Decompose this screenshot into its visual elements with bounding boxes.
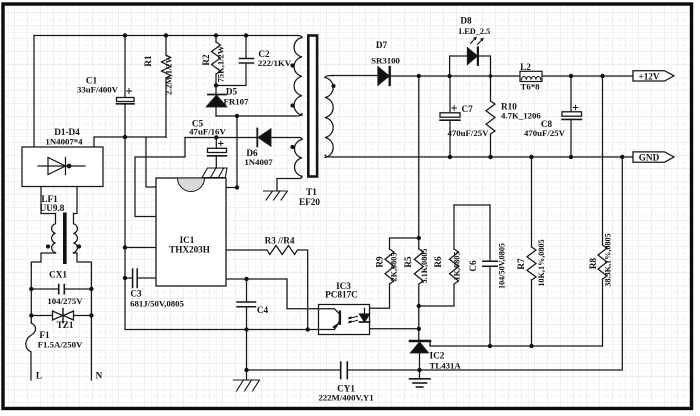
node IC1 / C4 (244, 277, 248, 281)
svg-text:470uF/25V: 470uF/25V (524, 128, 566, 138)
svg-text:38.3K,1%,0805: 38.3K,1%,0805 (604, 233, 613, 286)
svg-text:4.7K_1206: 4.7K_1206 (501, 111, 541, 121)
common-mode choke LF1 (31, 213, 91, 266)
wire bottom ground rail through CY1 to GND rail (247, 157, 623, 370)
svg-text:R5: R5 (403, 256, 413, 268)
resistor R9 (385, 249, 394, 284)
node R2/C2/D5 (214, 83, 218, 87)
svg-text:R8: R8 (588, 257, 598, 269)
diode D5 (207, 95, 227, 107)
wire startup feed to IC1 left pin (146, 137, 156, 187)
wire D6 anode to aux winding (271, 137, 299, 139)
node CX1 ends (29, 287, 33, 291)
svg-text:10K,1%,0805: 10K,1%,0805 (537, 239, 546, 286)
node bus / IC1 pins (123, 245, 127, 249)
fuse F1 (26, 316, 36, 381)
node sense divider top (417, 236, 421, 240)
capacitor C3 (133, 269, 138, 288)
wire C2 stems and link to R2 (216, 36, 246, 86)
svg-text:R1: R1 (143, 55, 153, 67)
wire +12V sense drop (418, 76, 420, 238)
wire top DC rail (34, 35, 298, 37)
transformer T1 EF20 (290, 36, 335, 177)
wire LED D8 branch risers (450, 56, 491, 76)
svg-text:F1: F1 (39, 330, 50, 340)
svg-text:F1.5A/250V: F1.5A/250V (38, 340, 83, 350)
wire C4 stems and primary ground stub (246, 279, 248, 380)
wire IC1 to C4 node and opto collector (226, 279, 319, 309)
wire C1 stem bottom / main bus to optocoupler emitter (125, 104, 319, 330)
svg-text:T1: T1 (306, 187, 317, 197)
earth ground for IC2 (410, 379, 431, 387)
resistor R3//R4 (267, 246, 297, 255)
svg-text:470uF/25V: 470uF/25V (447, 128, 489, 138)
svg-text:LED_2.5: LED_2.5 (459, 27, 491, 36)
svg-text:1N4007*4: 1N4007*4 (45, 137, 83, 147)
svg-text:R7: R7 (516, 258, 526, 270)
wire GND rail (333, 156, 633, 158)
svg-text:FR107: FR107 (224, 97, 250, 107)
diode D6 (257, 129, 271, 147)
wire R6 stems and link (419, 205, 454, 306)
wire R5 stems to TL431 cathode (418, 238, 420, 341)
capacitor C2 (240, 59, 254, 64)
wire secondary top to D7 (332, 75, 378, 77)
X capacitor CX1 (31, 265, 91, 316)
inductor L2 (520, 71, 542, 81)
chassis ground for C5 (202, 168, 227, 178)
svg-text:D1-D4: D1-D4 (54, 127, 80, 137)
wire TL431 anode to ground rail (419, 353, 421, 379)
wire R7 stems (531, 157, 533, 346)
wire R1 stems (165, 36, 167, 138)
svg-text:222/1KV: 222/1KV (258, 58, 292, 68)
wire bus to IC1 pin (125, 247, 156, 249)
svg-text:5.1K,0805: 5.1K,0805 (420, 248, 429, 283)
capacitor C7 (440, 106, 460, 121)
wire R6/C6 top link (454, 204, 490, 206)
node top rail junctions (123, 33, 127, 37)
resistor R6 (450, 249, 459, 284)
svg-text:PC817C: PC817C (325, 290, 358, 300)
wire +12V rail D7 to L2 and L2 to +12V flag (391, 75, 634, 77)
wire R3//R4 run to emitter line (226, 250, 308, 330)
wire R8 stems from +12V (602, 76, 604, 346)
svg-text:D8: D8 (460, 16, 472, 26)
bridge rectifier D1-D4 (22, 147, 103, 213)
wire R2 stems (215, 36, 217, 86)
node IC1 right pin to clamp (235, 185, 239, 189)
resistor R5 (414, 249, 423, 284)
svg-text:47uF/16V: 47uF/16V (189, 127, 226, 137)
node C5 tap (214, 135, 218, 139)
svg-text:TL431A: TL431A (430, 361, 462, 371)
wire C3 leads (125, 277, 156, 279)
node bridge output / C1 (123, 135, 127, 139)
wire D6 cathode line (185, 137, 257, 139)
svg-text:1K,0805: 1K,0805 (453, 252, 462, 281)
svg-text:222M/400V,Y1: 222M/400V,Y1 (318, 393, 373, 403)
svg-text:C7: C7 (462, 104, 474, 114)
wire D5 anode to primary bottom (216, 115, 294, 117)
svg-text:UU9.8: UU9.8 (40, 203, 65, 213)
capacitor C6 (483, 261, 498, 266)
capacitor C8 (562, 105, 582, 119)
node TL431 cathode / opto (417, 327, 421, 331)
chassis ground for C4 (234, 380, 260, 391)
node TL431 anode rail (417, 368, 421, 372)
node GND rail junctions (448, 155, 452, 159)
node R5/R6 bottom (417, 304, 421, 308)
IC U1 IC1 THX203H (156, 178, 226, 286)
svg-text:N: N (96, 371, 103, 381)
svg-text:C6: C6 (468, 260, 478, 272)
node C4 / emitter line (244, 327, 248, 331)
diode D7 (378, 67, 390, 85)
node TZ1 ends (29, 313, 33, 317)
svg-text:SR3100: SR3100 (371, 56, 400, 66)
resistor R1 (162, 55, 171, 78)
svg-text:C3: C3 (130, 289, 142, 299)
wire clamp node down to IC1 right pin (226, 116, 237, 188)
svg-text:D5: D5 (226, 87, 238, 97)
capacitor C1 (117, 89, 135, 104)
terminal +12V flag (633, 71, 674, 81)
wire C5 stems (215, 138, 217, 169)
node clamp / primary bottom (235, 114, 239, 118)
svg-text:EF20: EF20 (299, 197, 320, 207)
svg-text:+12V: +12V (638, 71, 659, 81)
svg-text:GND: GND (639, 153, 660, 163)
svg-text:L: L (36, 371, 42, 381)
svg-text:1N4007: 1N4007 (244, 157, 273, 167)
svg-text:D7: D7 (376, 40, 388, 50)
wire R10 stems (490, 76, 492, 157)
svg-text:C4: C4 (257, 305, 269, 315)
wire sense node to R9 and R9 to opto anode (365, 238, 419, 308)
svg-text:75K,1/2W: 75K,1/2W (216, 45, 226, 82)
wire C7 stems (449, 76, 451, 157)
wire D5 stems (215, 86, 217, 117)
wire C1 stem top (124, 36, 126, 98)
svg-text:R9: R9 (375, 256, 385, 268)
wire TL431 ref line (430, 341, 603, 346)
chassis ground for aux winding (264, 191, 288, 200)
Y capacitor CY1 (341, 362, 348, 379)
terminal GND flag (633, 152, 674, 162)
wire bridge output to bus node (94, 137, 166, 147)
resistor R8 (598, 245, 607, 279)
svg-text:33uF/400V: 33uF/400V (77, 85, 119, 95)
wire opto LED cathode to TL431 (365, 322, 419, 329)
svg-text:681J/50V,0805: 681J/50V,0805 (130, 299, 184, 309)
LED D8 (468, 37, 484, 65)
svg-text:R6: R6 (433, 256, 443, 268)
optocoupler IC3 PC817C (319, 305, 370, 335)
svg-text:2K,0805: 2K,0805 (390, 253, 399, 282)
svg-text:104/275V: 104/275V (47, 296, 83, 306)
svg-text:CX1: CX1 (49, 270, 67, 280)
svg-text:L2: L2 (520, 62, 531, 72)
resistor R10 (486, 101, 495, 134)
wire C6 stems (489, 205, 491, 346)
wire Vcc run to IC1 (135, 138, 185, 217)
node ref line junctions (488, 344, 492, 348)
svg-text:TZ1: TZ1 (57, 320, 74, 330)
wire left drop to bridge (33, 36, 35, 148)
node R3R4 leg / emitter line (306, 327, 310, 331)
svg-text:IC1: IC1 (180, 235, 195, 245)
wire C8 stems (570, 76, 572, 157)
shunt regulator IC2 TL431A (410, 341, 430, 353)
svg-text:THX203H: THX203H (169, 245, 210, 255)
svg-text:R3 //R4: R3 //R4 (265, 236, 295, 246)
svg-text:T6*8: T6*8 (520, 82, 540, 92)
resistor R2 (212, 42, 221, 74)
wire aux winding to chassis ground (277, 176, 302, 191)
node primary ground rail (244, 368, 248, 372)
node +12V rail junctions (417, 74, 421, 78)
svg-text:R2: R2 (201, 54, 211, 66)
capacitor C4 (237, 302, 256, 307)
resistor R7 (527, 247, 536, 280)
capacitor C5 (208, 141, 227, 156)
svg-text:104/50V,0805: 104/50V,0805 (498, 243, 507, 289)
varistor TZ1 (31, 309, 91, 381)
svg-text:2.2M,1/2W: 2.2M,1/2W (164, 54, 174, 95)
svg-text:IC2: IC2 (430, 351, 445, 361)
